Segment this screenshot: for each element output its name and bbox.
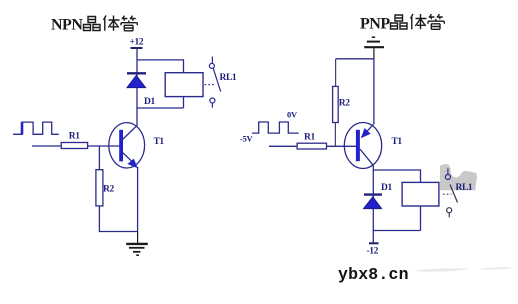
diode D1 (NPN flyback) <box>127 73 146 87</box>
svg-text:PNP: PNP <box>360 16 390 33</box>
svg-text:T1: T1 <box>392 137 403 147</box>
svg-text:D1: D1 <box>381 183 392 193</box>
resistor R1 (PNP) <box>297 143 326 149</box>
体 <box>411 14 427 29</box>
svg-text:R2: R2 <box>339 99 350 109</box>
transistor T1 (NPN) internals <box>119 125 137 167</box>
svg-text:R2: R2 <box>103 185 114 195</box>
supply -12 terminal <box>367 243 379 256</box>
wire relay loop top (PNP) <box>373 169 420 171</box>
svg-text:-5V: -5V <box>240 134 253 144</box>
svg-text:T1: T1 <box>154 137 165 147</box>
体 <box>104 16 120 31</box>
resistor R1 (NPN) <box>61 143 87 149</box>
wire emitter vertical <box>373 59 375 125</box>
svg-text:+12: +12 <box>130 38 144 48</box>
wire node to R2 <box>98 146 100 170</box>
wire R2 to base node <box>334 123 336 147</box>
晶 <box>84 17 101 31</box>
transistor T1 (PNP) body <box>344 123 381 169</box>
svg-text:R1: R1 <box>69 132 80 142</box>
resistor R2 (PNP) <box>333 86 339 122</box>
input square wave (NPN) <box>13 122 59 134</box>
wire collector vertical to -12 <box>372 165 374 242</box>
supply +12 label <box>130 38 144 49</box>
晶 <box>391 15 408 29</box>
transistor T1 (PNP) internals <box>356 124 374 165</box>
wire R1 to base <box>327 145 357 147</box>
relay switch RL1 contacts (PNP) <box>443 168 458 217</box>
svg-text:RL1: RL1 <box>456 183 473 193</box>
wire +12 to collector node (main vertical) <box>136 49 138 125</box>
diode D1 (PNP flyback) <box>364 195 383 209</box>
wire relay loop bottom <box>136 107 183 109</box>
wire relay loop right <box>183 59 185 108</box>
wire left branch to R2 <box>335 59 337 87</box>
wire input to R1 <box>32 145 61 147</box>
wire R2 to ground rail <box>99 206 137 232</box>
watermark grey blob <box>440 164 477 190</box>
svg-text:-12: -12 <box>367 247 379 257</box>
input square wave (PNP) <box>252 122 299 133</box>
svg-text:ybx8.cn: ybx8.cn <box>338 265 409 284</box>
管 <box>121 16 137 31</box>
wire R1 to base <box>88 145 121 147</box>
wire input to R1 <box>269 145 297 147</box>
transistor T1 (NPN) body <box>109 123 145 168</box>
wire relay loop right (PNP) <box>420 169 422 230</box>
relay coil RL1 (NPN) <box>165 73 203 97</box>
ground (PNP, top) <box>364 37 384 59</box>
wire emitter to ground <box>137 167 139 232</box>
svg-text:NPN: NPN <box>51 17 83 34</box>
svg-text:R1: R1 <box>304 133 315 143</box>
title NPN transistor (NPN晶体管) <box>51 16 137 34</box>
relay coil RL1 (PNP) <box>402 182 439 206</box>
wire ground rail horizontal <box>336 58 374 60</box>
管 <box>428 14 444 29</box>
resistor R2 (NPN) <box>96 170 103 206</box>
relay switch RL1 contacts (NPN) <box>205 57 221 108</box>
title PNP transistor (PNP晶体管) <box>360 14 444 33</box>
wire relay loop bottom (PNP) <box>373 230 421 232</box>
ground (NPN) <box>126 232 148 256</box>
svg-text:RL1: RL1 <box>220 73 237 83</box>
svg-text:0V: 0V <box>287 110 298 120</box>
watermark light streaks <box>412 268 470 271</box>
wire relay loop top <box>137 59 184 61</box>
supply +12 terminal bar <box>131 47 143 49</box>
svg-text:D1: D1 <box>144 97 155 107</box>
